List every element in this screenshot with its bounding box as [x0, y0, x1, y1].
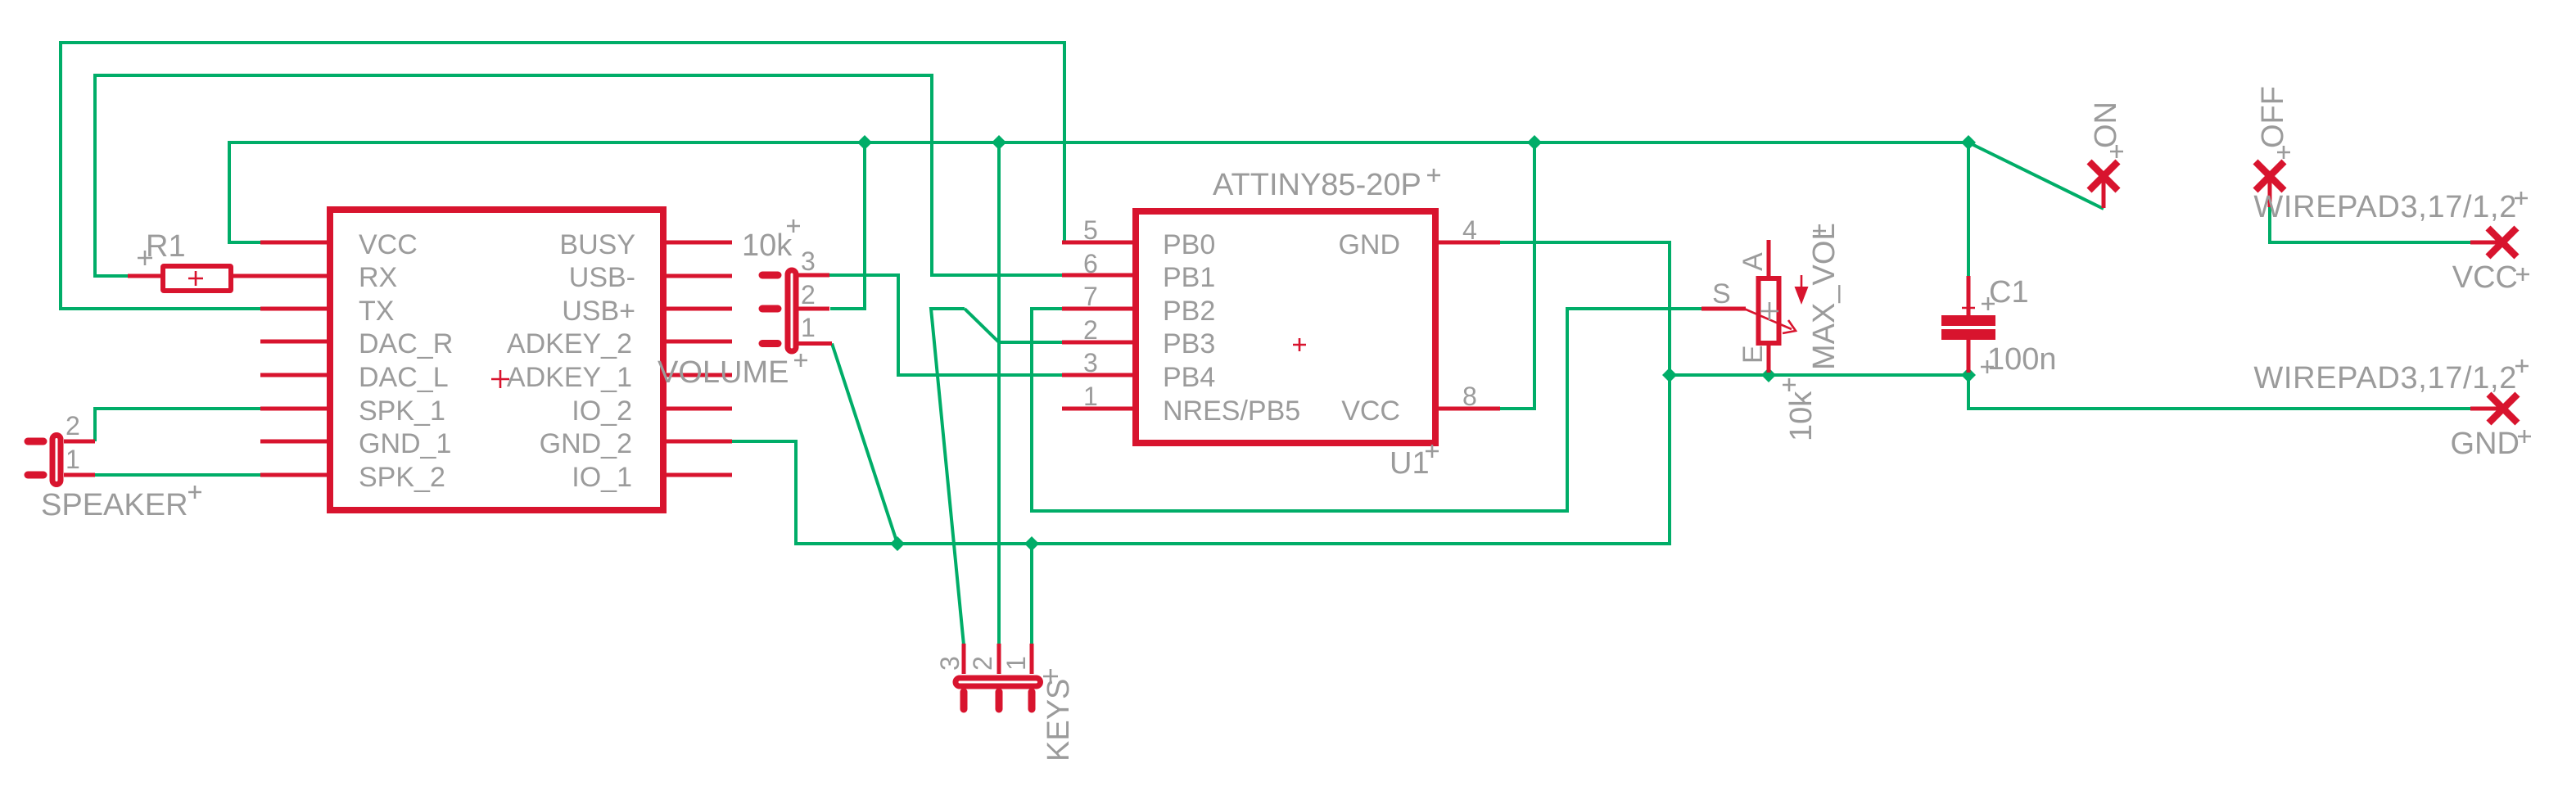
svg-text:3: 3	[801, 246, 816, 276]
svg-text:4: 4	[1462, 215, 1477, 245]
wire VOLUME pin2 drop	[830, 142, 865, 309]
svg-text:VCC: VCC	[359, 229, 418, 260]
wire net VCC horizontal	[229, 142, 2104, 242]
svg-text:VCC: VCC	[1341, 395, 1400, 427]
svg-text:1: 1	[66, 445, 80, 474]
svg-text:ADKEY_1: ADKEY_1	[507, 362, 632, 393]
wirepad OFF	[2256, 162, 2285, 208]
svg-text:U1: U1	[1390, 446, 1430, 481]
DFPlayer module box	[330, 210, 663, 510]
svg-text:IO_1: IO_1	[572, 462, 632, 493]
svg-text:SPEAKER: SPEAKER	[41, 488, 188, 522]
wire SPK_2 to SPEAKER pin1	[95, 473, 260, 477]
wire SPK_1 to SPEAKER pin2	[95, 409, 260, 441]
IC U1 ATTINY85 box	[1136, 211, 1435, 443]
svg-text:10k: 10k	[1784, 391, 1819, 441]
connector VOLUME pin leads	[792, 275, 832, 344]
junction C1 / VCC rail	[1961, 135, 1976, 150]
potentiometer MAX_VOL	[1702, 240, 1809, 373]
IC U1 origin cross	[1293, 338, 1306, 351]
junction KEYS pin1 / GND rail	[1024, 536, 1039, 551]
svg-text:DAC_R: DAC_R	[359, 328, 453, 359]
connector KEYS contact dashes	[964, 692, 1032, 709]
svg-text:2: 2	[968, 656, 997, 671]
junction VOLUME pin1 diag / GND rail	[890, 536, 905, 551]
IC U1 ATTINY85 pin stubs	[1062, 242, 1500, 409]
connector SPEAKER contact dashes	[28, 441, 43, 475]
DFPlayer pin labels right	[507, 229, 635, 493]
svg-text:KEYS: KEYS	[1042, 679, 1076, 762]
svg-text:ATTINY85-20P: ATTINY85-20P	[1213, 168, 1421, 202]
wire KEYS pin3 to PB3	[931, 309, 1062, 645]
wire VOLUME pin1 diagonal to GND rail	[832, 344, 897, 545]
svg-text:ON: ON	[2089, 102, 2123, 148]
connector KEYS body bar	[956, 678, 1041, 686]
svg-text:GND: GND	[2451, 427, 2520, 461]
svg-text:6: 6	[1083, 249, 1098, 278]
svg-text:USB+: USB+	[562, 296, 635, 327]
svg-text:VCC: VCC	[2452, 260, 2518, 295]
svg-text:GND_1: GND_1	[359, 428, 451, 459]
wire KEYS pin2 to VCC rail	[997, 142, 1001, 644]
svg-text:ADKEY_2: ADKEY_2	[507, 328, 632, 359]
svg-text:7: 7	[1083, 282, 1098, 311]
pot pin letters S A E (rotated)	[1712, 252, 1769, 364]
svg-text:1: 1	[801, 313, 816, 342]
connector SPEAKER body bar	[52, 436, 61, 485]
connector KEYS pin leads	[964, 644, 1032, 674]
svg-text:PB2: PB2	[1163, 296, 1215, 327]
svg-text:3: 3	[935, 656, 965, 671]
connector SPEAKER pin numbers	[66, 411, 80, 474]
svg-text:C1: C1	[1989, 275, 2029, 310]
wire GND rail bottom	[732, 242, 1670, 544]
svg-text:USB-: USB-	[569, 262, 635, 293]
svg-text:1: 1	[1001, 656, 1031, 671]
svg-text:8: 8	[1462, 382, 1477, 411]
svg-text:A: A	[1738, 252, 1769, 271]
junction GND riser / mid rail	[1662, 368, 1677, 382]
connector SPEAKER pin leads	[64, 441, 95, 475]
svg-text:OFF: OFF	[2256, 86, 2290, 148]
wire net RX-R1-PB1	[95, 75, 1062, 276]
IC U1 pin numbers	[1083, 215, 1477, 411]
svg-text:BUSY: BUSY	[559, 229, 635, 260]
svg-text:PB3: PB3	[1163, 328, 1215, 359]
resistor R1	[128, 266, 231, 291]
svg-text:WIREPAD3,17/1,2: WIREPAD3,17/1,2	[2253, 190, 2517, 224]
svg-text:IO_2: IO_2	[572, 395, 632, 427]
wire GND mid rail (pot bottom / C1)	[1670, 375, 2470, 409]
svg-text:E: E	[1738, 345, 1769, 364]
capacitor C1	[1941, 276, 1995, 373]
svg-text:100n: 100n	[1987, 342, 2057, 377]
svg-text:5: 5	[1083, 215, 1098, 245]
junction pot E / mid rail	[1761, 368, 1776, 382]
connector KEYS pin numbers (rotated)	[935, 656, 1031, 671]
junction ATTINY VCC riser / VCC rail	[1527, 135, 1542, 150]
svg-text:2: 2	[801, 280, 816, 310]
svg-text:PB4: PB4	[1163, 362, 1215, 393]
svg-text:GND_2: GND_2	[540, 428, 632, 459]
svg-text:WIREPAD3,17/1,2: WIREPAD3,17/1,2	[2253, 361, 2517, 395]
wire C1 top lead	[1967, 142, 1970, 276]
wire KEYS pin1 to GND rail	[1030, 544, 1033, 644]
svg-text:3: 3	[1083, 348, 1098, 377]
wire OFF pad to VCC pad	[2270, 207, 2470, 242]
svg-text:SPK_2: SPK_2	[359, 462, 445, 493]
DFPlayer module U (left box) pin stubs	[232, 242, 732, 475]
wire PB2 to pot wiper S	[1032, 309, 1702, 511]
junction C1 bottom / mid rail	[1961, 368, 1976, 382]
svg-text:SPK_1: SPK_1	[359, 395, 445, 427]
svg-text:S: S	[1712, 278, 1731, 310]
wirepad GND	[2470, 395, 2518, 423]
svg-text:PB1: PB1	[1163, 262, 1215, 293]
svg-text:TX: TX	[359, 296, 394, 327]
svg-text:VOLUME: VOLUME	[658, 355, 789, 390]
wire net TX: left tall loop	[61, 43, 1064, 309]
connector VOLUME pin numbers	[801, 246, 816, 342]
wire VOLUME pin3 to PB4	[829, 275, 1062, 375]
svg-text:RX: RX	[359, 262, 397, 293]
svg-text:2: 2	[1083, 315, 1098, 345]
connector VOLUME contact dashes	[762, 275, 778, 344]
junction VOLUME pin2 / VCC rail	[857, 135, 872, 150]
IC U1 pin labels	[1163, 229, 1400, 427]
junction KEYS pin2 / VCC rail	[992, 135, 1006, 150]
wirepad ON	[2090, 162, 2118, 209]
svg-text:NRES/PB5: NRES/PB5	[1163, 395, 1300, 427]
connector VOLUME body bar	[788, 270, 796, 351]
svg-text:2: 2	[66, 411, 80, 441]
svg-text:MAX_VOL: MAX_VOL	[1807, 223, 1842, 370]
wirepad VCC	[2470, 228, 2517, 257]
svg-text:10k: 10k	[742, 228, 793, 263]
svg-text:1: 1	[1083, 382, 1098, 411]
svg-text:PB0: PB0	[1163, 229, 1215, 260]
DFPlayer pin labels left	[359, 229, 453, 493]
svg-text:DAC_L: DAC_L	[359, 362, 449, 393]
DFPlayer origin cross	[491, 370, 509, 388]
svg-text:GND: GND	[1338, 229, 1400, 260]
wire ATTINY VCC pin8 riser	[1500, 142, 1534, 409]
